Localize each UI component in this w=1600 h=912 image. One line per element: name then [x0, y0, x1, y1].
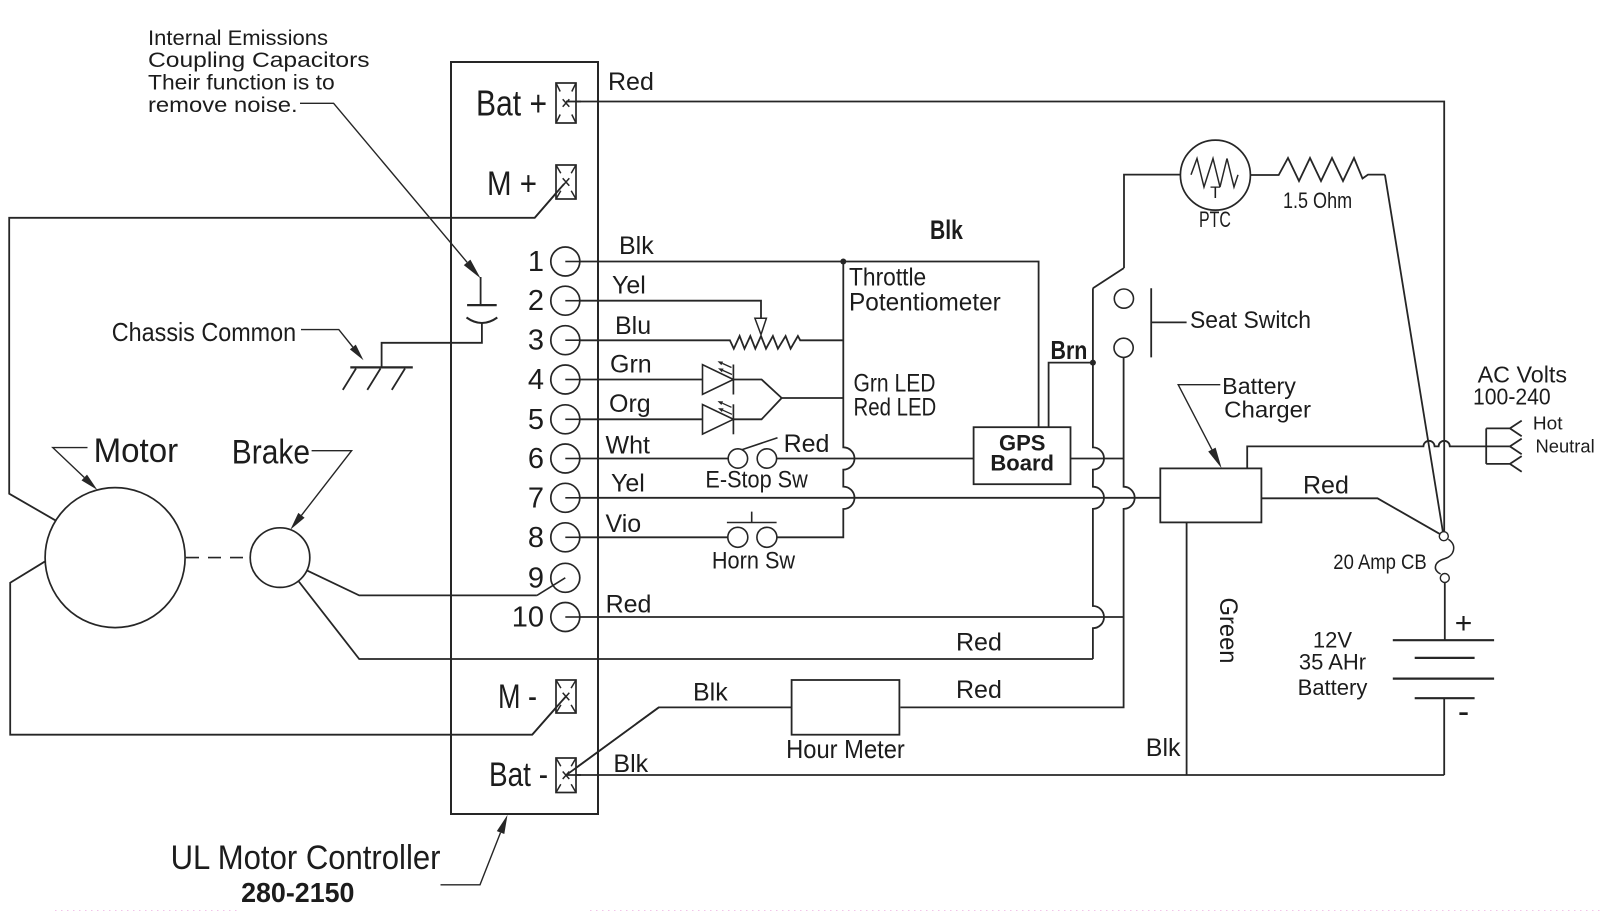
svg-text:Chassis Common: Chassis Common — [112, 317, 296, 347]
svg-text:35 AHr: 35 AHr — [1299, 649, 1366, 674]
svg-text:PTC: PTC — [1199, 207, 1231, 232]
svg-text:Blk: Blk — [1146, 734, 1181, 762]
svg-text:20 Amp CB: 20 Amp CB — [1333, 551, 1426, 574]
svg-text:M +: M + — [487, 165, 537, 203]
svg-text:Charger: Charger — [1224, 397, 1311, 423]
svg-text:7: 7 — [528, 482, 544, 514]
svg-text:Bat +: Bat + — [476, 83, 547, 124]
svg-text:Blk: Blk — [619, 232, 654, 260]
svg-text:280-2150: 280-2150 — [241, 877, 354, 908]
svg-text:1: 1 — [528, 246, 544, 278]
svg-text:Neutral: Neutral — [1536, 437, 1595, 457]
svg-text:Brake: Brake — [232, 434, 310, 472]
svg-text:Yel: Yel — [611, 470, 645, 498]
svg-text:Vio: Vio — [606, 510, 642, 538]
svg-text:6: 6 — [528, 443, 544, 475]
svg-text:9: 9 — [528, 562, 544, 594]
svg-text:remove noise.: remove noise. — [148, 94, 298, 117]
svg-text:Wht: Wht — [606, 432, 651, 460]
svg-text:Red: Red — [1303, 472, 1349, 500]
svg-text:Horn Sw: Horn Sw — [712, 548, 796, 575]
svg-text:Internal Emissions: Internal Emissions — [148, 27, 328, 50]
svg-text:Yel: Yel — [612, 272, 646, 300]
svg-text:10: 10 — [512, 602, 544, 634]
svg-text:+: + — [1455, 607, 1473, 640]
svg-text:UL Motor Controller: UL Motor Controller — [171, 839, 441, 877]
svg-text:Hour Meter: Hour Meter — [786, 734, 905, 764]
svg-text:Throttle: Throttle — [849, 264, 926, 292]
svg-text:3: 3 — [528, 325, 544, 357]
svg-text:Coupling Capacitors: Coupling Capacitors — [148, 49, 370, 72]
svg-text:Potentiometer: Potentiometer — [849, 289, 1001, 317]
svg-text:100-240: 100-240 — [1473, 384, 1551, 410]
svg-text:5: 5 — [528, 404, 544, 436]
svg-text:2: 2 — [528, 285, 544, 317]
svg-text:Red: Red — [956, 629, 1002, 657]
svg-text:Green: Green — [1214, 598, 1242, 664]
svg-text:Blk: Blk — [613, 750, 648, 778]
svg-text:T: T — [1210, 183, 1220, 202]
svg-text:M -: M - — [498, 678, 537, 716]
svg-text:Blk: Blk — [930, 215, 964, 245]
svg-text:-: - — [1458, 693, 1469, 731]
svg-text:Red: Red — [784, 430, 830, 458]
svg-text:Grn: Grn — [610, 350, 652, 378]
svg-text:Battery: Battery — [1222, 373, 1296, 399]
svg-text:Motor: Motor — [94, 432, 179, 470]
svg-text:Battery: Battery — [1298, 675, 1368, 700]
svg-text:Red: Red — [606, 591, 652, 619]
svg-text:Red LED: Red LED — [854, 394, 937, 422]
svg-text:Red: Red — [608, 68, 654, 96]
svg-text:1.5 Ohm: 1.5 Ohm — [1283, 188, 1352, 213]
svg-text:4: 4 — [528, 364, 544, 396]
svg-text:Seat Switch: Seat Switch — [1190, 307, 1311, 334]
svg-text:Blu: Blu — [615, 312, 651, 340]
svg-text:Red: Red — [956, 676, 1002, 704]
svg-text:E-Stop Sw: E-Stop Sw — [705, 467, 808, 494]
svg-text:8: 8 — [528, 522, 544, 554]
svg-text:Org: Org — [609, 390, 651, 418]
svg-text:Board: Board — [990, 451, 1054, 476]
svg-text:Their function is to: Their function is to — [148, 72, 335, 95]
svg-text:Brn: Brn — [1051, 335, 1088, 365]
svg-text:Hot: Hot — [1533, 414, 1563, 434]
svg-text:Bat -: Bat - — [489, 756, 548, 794]
svg-text:Blk: Blk — [693, 678, 728, 706]
